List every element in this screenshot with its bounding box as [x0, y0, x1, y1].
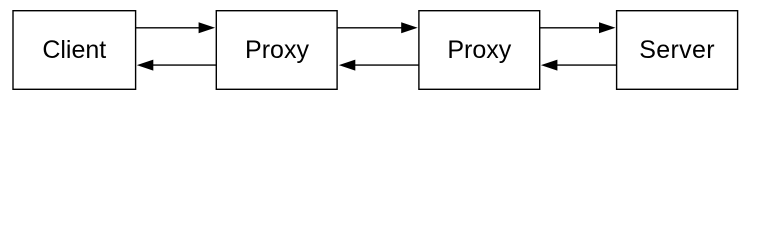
arrow Proxy P1 to Client (bottom, left-pointing)	[137, 60, 217, 71]
svg-text:Proxy: Proxy	[245, 36, 309, 64]
arrow Proxy P1 to Proxy P2 (top, right-pointing)	[337, 22, 418, 33]
arrow Server to Proxy P2 (bottom, left-pointing)	[541, 60, 617, 71]
svg-text:Server: Server	[639, 36, 715, 64]
box Client	[13, 11, 136, 90]
box Server	[617, 11, 738, 90]
box Proxy P2	[419, 11, 540, 90]
arrow Proxy P2 to Proxy P1 (bottom, left-pointing)	[339, 60, 419, 71]
svg-text:Client: Client	[42, 36, 106, 64]
box Proxy P1	[216, 11, 337, 90]
svg-text:Proxy: Proxy	[447, 36, 511, 64]
arrow Client to Proxy P1 (top, right-pointing)	[136, 22, 216, 33]
arrow Proxy P2 to Server (top, right-pointing)	[540, 22, 616, 33]
